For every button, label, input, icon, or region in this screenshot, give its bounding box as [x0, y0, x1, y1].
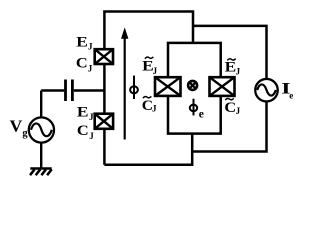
label CJ-tilde SQUID right [224, 98, 240, 116]
label EJ lower junction [77, 104, 94, 121]
label EJ-tilde SQUID left [142, 57, 157, 76]
svg-text:J: J [153, 66, 158, 76]
wire SQUID inner loop [168, 43, 221, 134]
label CJ upper junction [76, 56, 93, 74]
flux symbol (circle-cross) [188, 81, 197, 90]
label Ie [281, 81, 293, 101]
svg-text:J: J [88, 41, 93, 51]
svg-text:E: E [76, 35, 88, 51]
wire branch to current source, right vertical and bottom return [192, 26, 266, 152]
svg-text:J: J [236, 67, 241, 77]
Josephson junction lower (EJ CJ) [95, 114, 113, 129]
label CJ lower junction [77, 123, 94, 141]
label phi (phase) [130, 76, 138, 99]
Josephson junction SQUID left [155, 77, 181, 96]
label Vg [10, 116, 29, 139]
wire left branch vertical, top rail, drop to SQUID loop top [104, 12, 193, 165]
phase arrow phi [121, 27, 128, 139]
svg-text:J: J [89, 131, 94, 141]
capacitor Cg left plate [64, 80, 67, 102]
svg-text:J: J [88, 63, 93, 73]
svg-text:E: E [225, 59, 237, 75]
svg-text:C: C [224, 100, 236, 116]
label EJ upper junction [76, 35, 93, 52]
label CJ-tilde SQUID left [142, 96, 157, 113]
svg-text:J: J [152, 104, 157, 114]
label phi_e (external flux) [190, 99, 204, 121]
svg-text:J: J [236, 106, 241, 116]
current source Ie [255, 79, 278, 102]
svg-text:g: g [22, 128, 28, 139]
voltage source Vg [29, 117, 54, 142]
wire Vg vertical [40, 91, 42, 169]
wire gate left segment [41, 89, 64, 91]
ground [30, 169, 52, 176]
svg-text:e: e [289, 91, 293, 101]
Josephson junction upper (EJ CJ) [95, 49, 113, 64]
svg-text:C: C [77, 123, 89, 139]
wire gate right segment [74, 89, 105, 91]
label EJ-tilde SQUID right [225, 59, 241, 77]
svg-text:V: V [10, 116, 23, 135]
wire bottom stub and left bus [104, 134, 192, 165]
Josephson junction SQUID right [210, 77, 235, 96]
capacitor Cg right plate [71, 80, 74, 102]
svg-text:E: E [77, 104, 89, 120]
svg-text:C: C [76, 56, 88, 72]
svg-text:e: e [199, 108, 204, 120]
svg-text:J: J [89, 112, 94, 122]
